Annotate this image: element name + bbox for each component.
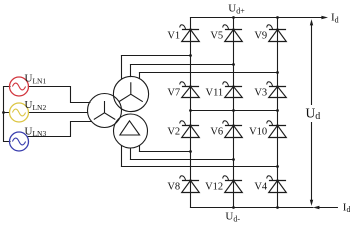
svg-text:V8: V8 [167, 182, 180, 193]
svg-text:V2: V2 [167, 127, 180, 138]
svg-text:V3: V3 [254, 88, 267, 99]
svg-text:V9: V9 [254, 31, 267, 42]
svg-text:V7: V7 [167, 88, 180, 99]
svg-text:V6: V6 [210, 127, 223, 138]
svg-text:V1: V1 [167, 31, 180, 42]
svg-text:V4: V4 [254, 182, 268, 193]
svg-text:V10: V10 [249, 127, 267, 138]
svg-text:V5: V5 [210, 31, 223, 42]
svg-text:V11: V11 [205, 88, 223, 99]
svg-text:V12: V12 [205, 182, 223, 193]
